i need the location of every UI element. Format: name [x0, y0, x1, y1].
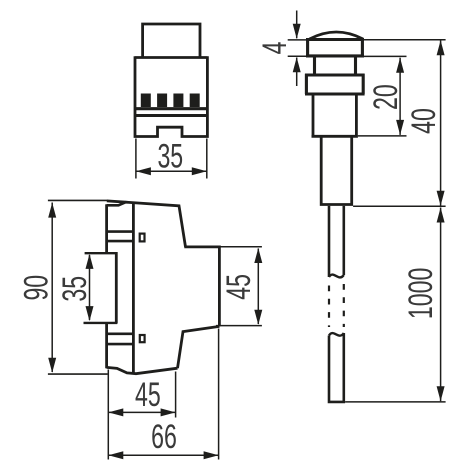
front view: top knob rectangle [143, 24, 200, 58]
side view: DIN recess inner edge [115, 252, 118, 324]
probe: collar [305, 74, 365, 94]
side view: DIN recess bottom step [84, 322, 118, 324]
dimension 66: right extension line [218, 329, 220, 460]
side view: lid seam detail [107, 202, 126, 205]
extension line: cap top to 40-dimension [364, 39, 446, 41]
dimension 1000: label [403, 268, 440, 319]
dimension 45 (protrusion): top extension line [220, 246, 262, 248]
probe: cable break squiggle lower [329, 333, 344, 336]
side view: front protrusion top edge [184, 245, 220, 248]
side view: front protrusion face [218, 246, 221, 327]
dimension 35 (front width): extension lines [136, 139, 207, 179]
svg-text:35: 35 [57, 276, 94, 302]
svg-text:4: 4 [257, 42, 294, 55]
probe: cap ring [306, 38, 364, 57]
dimension 66: dimension line with arrows [108, 451, 218, 459]
probe: cable lower solid section [328, 333, 345, 402]
dimension 40: label [406, 108, 443, 134]
front view: horizontal band line 2 [135, 114, 207, 117]
side view: upper clip square [140, 234, 145, 242]
svg-text:1000: 1000 [403, 268, 440, 319]
probe: neck [315, 57, 356, 75]
dimension 66: label [151, 419, 177, 456]
side view: upper rib line 1 [107, 230, 134, 233]
side view: top edge sloped [107, 201, 186, 247]
dimension 45 (bottom): right extension line [175, 372, 177, 418]
side view: back edge lower [105, 322, 108, 368]
side view: inner vertical partition [132, 203, 135, 374]
dimension 1000: dimension line with arrows [437, 208, 445, 402]
dimension 35 (DIN recess): dimension line with arrows [86, 254, 94, 321]
side view: DIN recess top step [85, 252, 118, 254]
svg-text:45: 45 [135, 377, 161, 414]
dimension 45 (bottom): left extension line [107, 370, 109, 460]
svg-text:66: 66 [151, 419, 177, 456]
side view: lower rib line 2 [107, 343, 134, 346]
side view: lower clip square [140, 335, 145, 342]
dimension 20: label [368, 84, 405, 110]
dimension 40: dimension line with arrows [437, 40, 445, 206]
dimension 45 (protrusion): label [221, 274, 258, 300]
probe: cable upper solid section [329, 206, 344, 277]
probe: middle tube [312, 94, 358, 136]
side view: lower rib line 1 [107, 332, 134, 335]
dimension 4: upper leader with down arrow [293, 11, 301, 39]
dimension 45 (bottom): dimension line with arrows [108, 408, 175, 416]
extension line: thin tube bottom to 40/1000 dimension [353, 205, 446, 207]
dimension 90: top extension line [48, 199, 107, 201]
probe: cable dashed break section [329, 284, 344, 327]
probe: lower thin tube [320, 136, 353, 204]
extension line: tube bottom to 20-dimension [358, 135, 407, 137]
dimension 45 (protrusion): bottom extension line [216, 325, 262, 327]
dimension 4: label [257, 42, 294, 55]
dimension 35 (front width): label [157, 138, 183, 175]
side view: slope below protrusion [178, 326, 220, 368]
dimension 35 (DIN recess): label [57, 276, 94, 302]
dimension 45 (protrusion): dimension line with arrows [254, 248, 262, 325]
side view: bottom edge [107, 367, 178, 373]
svg-text:35: 35 [157, 138, 183, 175]
front view: terminal block 3 [173, 94, 183, 108]
svg-text:45: 45 [221, 274, 258, 300]
svg-text:40: 40 [406, 108, 443, 134]
dimension 20: dimension line with arrows [396, 58, 404, 135]
front view: terminal block 1 [141, 94, 151, 108]
front view: body outline with bottom clip notch [135, 56, 207, 136]
svg-text:20: 20 [368, 84, 405, 110]
dimension 35 (front width): dimension line with arrows [136, 167, 207, 175]
dimension 90: bottom extension line [48, 373, 108, 375]
svg-text:90: 90 [18, 275, 55, 301]
probe: cable break squiggle upper [329, 275, 344, 278]
front view: terminal block 2 [157, 94, 167, 108]
probe: dome lens [310, 32, 364, 39]
dimension 4: lower leader with up arrow [293, 57, 301, 86]
dimension 90: label [18, 275, 55, 301]
front view: terminal block 4 [190, 94, 200, 108]
dimension 45 (bottom): label [135, 377, 161, 414]
extension line: cap bottom to 20-dimension [364, 55, 407, 57]
dimension 4: extension lines left of cap [288, 40, 306, 56]
front view: horizontal band line 1 [135, 107, 207, 110]
dimension 90: dimension line with arrows [48, 203, 56, 373]
side view: back edge upper [105, 204, 108, 254]
side view: upper rib line 2 [107, 240, 134, 243]
extension line: cable bottom to 1000-dimension [345, 401, 446, 403]
